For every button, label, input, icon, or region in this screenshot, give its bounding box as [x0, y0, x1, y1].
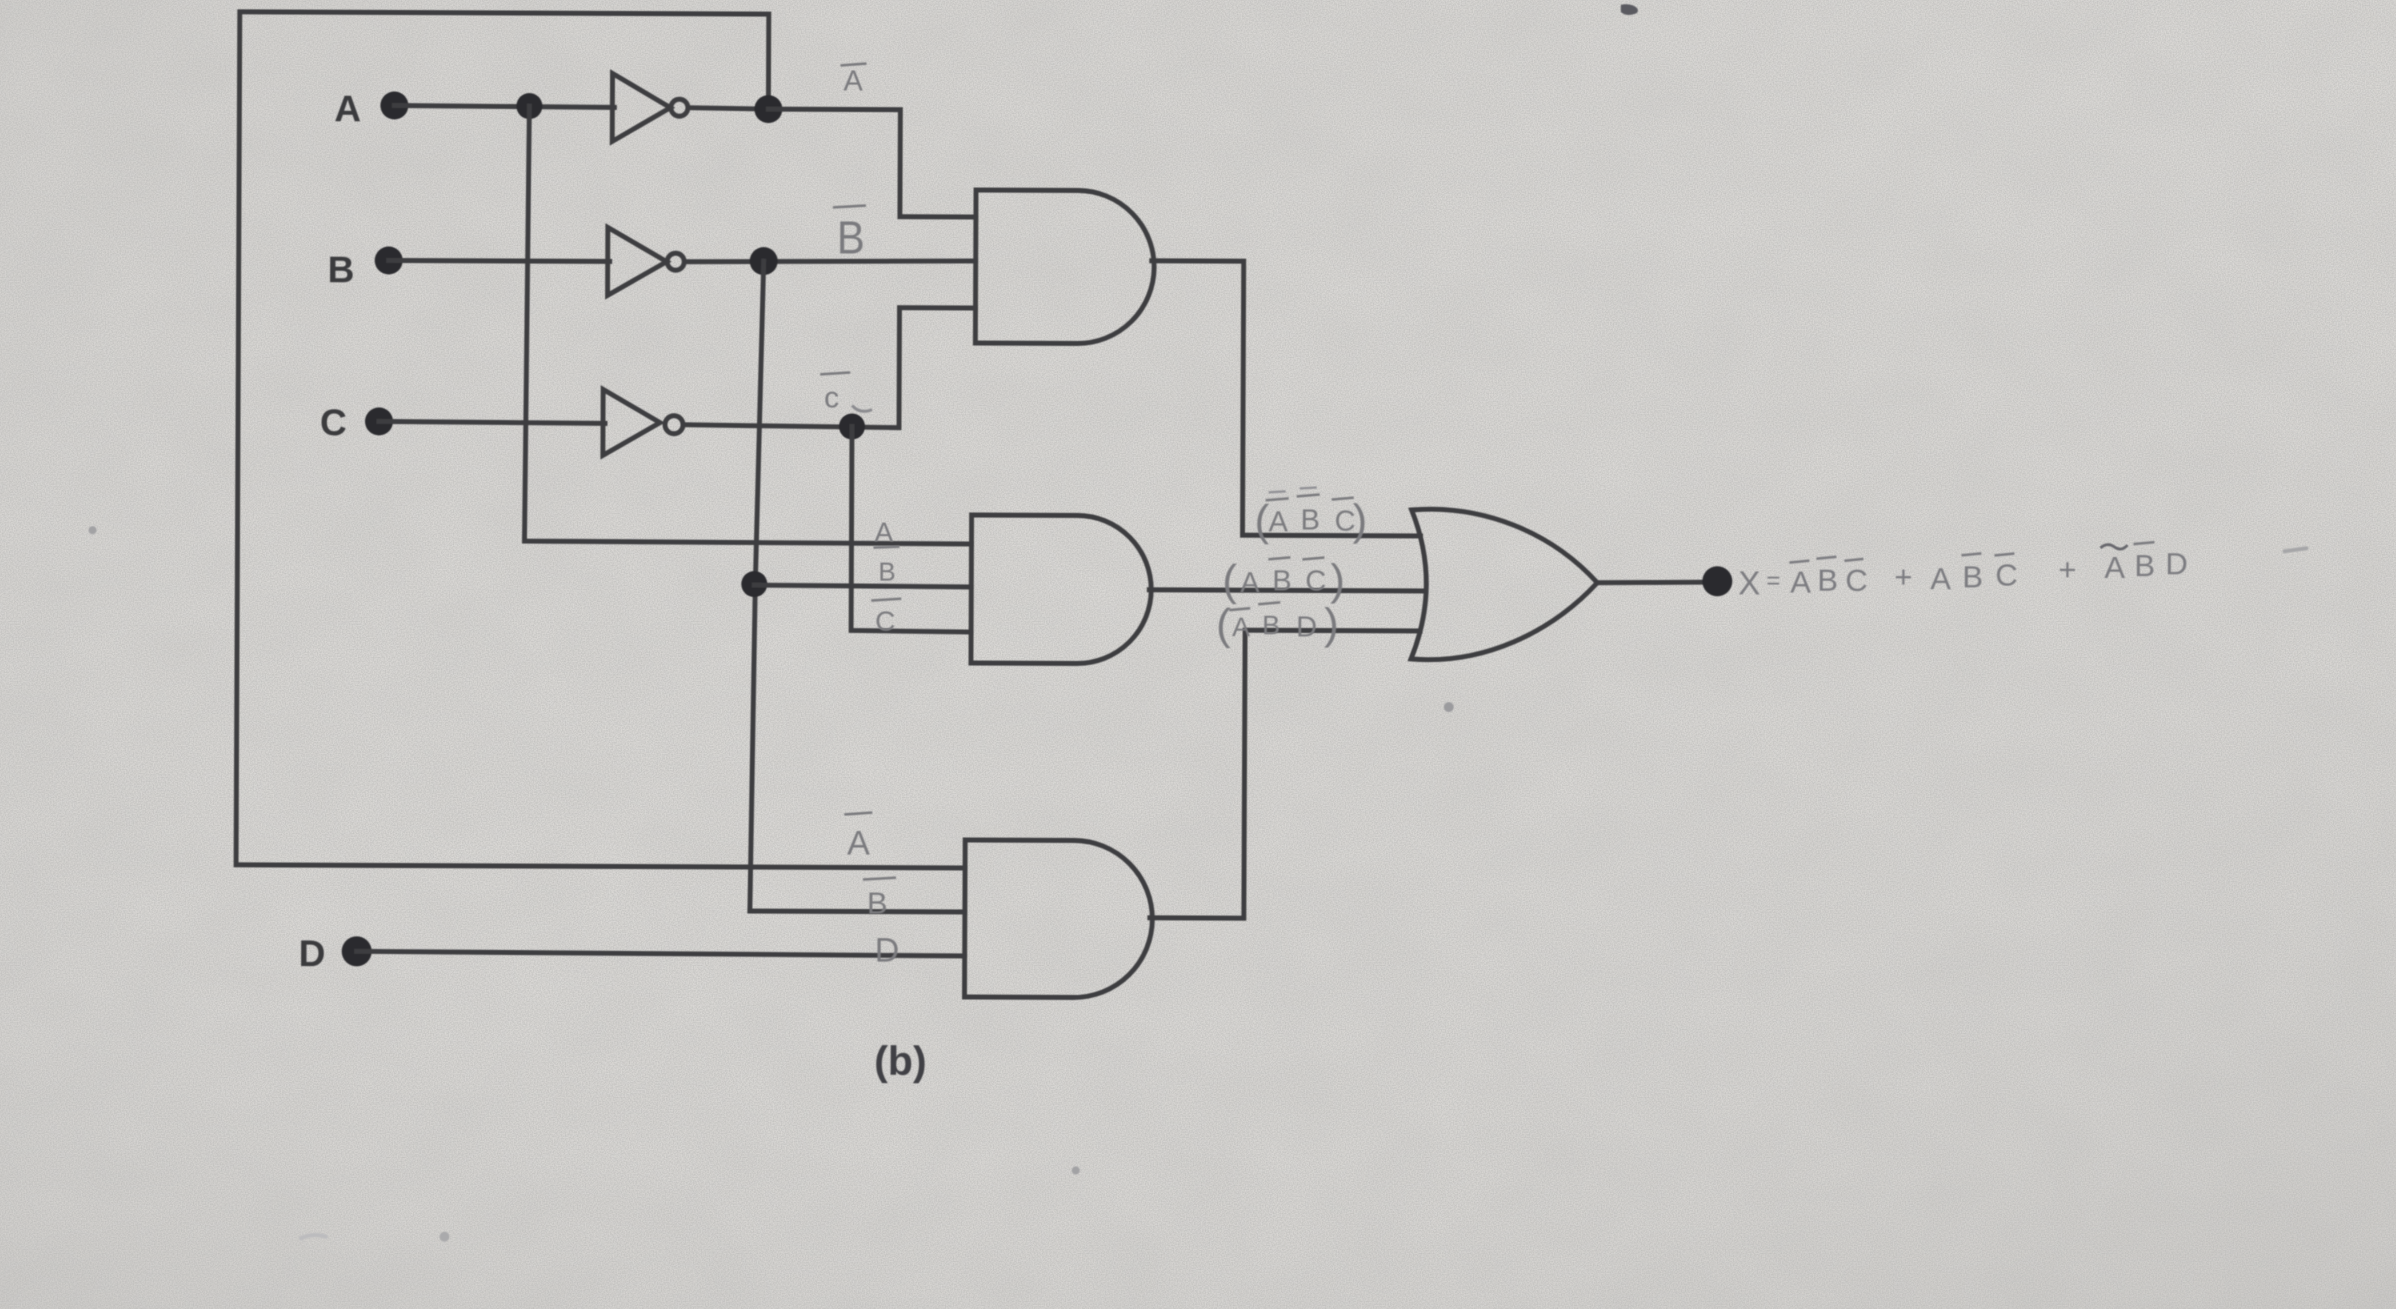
svg-text:B: B — [1962, 559, 1983, 594]
wire: Bbar to AND G3 middle input — [750, 909, 965, 915]
svg-text:(b): (b) — [874, 1038, 927, 1084]
svg-text:A: A — [2104, 550, 2125, 585]
svg-text:D: D — [299, 933, 326, 974]
svg-text:A: A — [1790, 565, 1811, 600]
wire: Bbar to AND G2 middle input — [754, 585, 971, 587]
junction: node Cbar — [839, 413, 865, 439]
svg-text:A: A — [1240, 567, 1260, 599]
wire: A vertical branch to AND G2 — [524, 106, 973, 544]
inverter U1 — [612, 73, 670, 141]
svg-text:=: = — [1766, 567, 1780, 594]
input terminal B — [375, 246, 403, 274]
wire: OR output to node X — [1597, 582, 1706, 583]
faint smudges — [89, 526, 97, 534]
svg-text:+: + — [1894, 559, 1912, 594]
svg-text:B: B — [867, 886, 888, 921]
wire: B input to inverter U2 — [389, 258, 610, 264]
svg-text:B: B — [328, 249, 355, 290]
svg-text:C: C — [875, 606, 895, 637]
stray ink mark top edge — [1621, 4, 1638, 15]
svg-text:B: B — [1272, 565, 1291, 597]
svg-text:D: D — [1296, 611, 1317, 643]
junction: A branch — [516, 93, 542, 119]
svg-text:c: c — [824, 381, 839, 414]
svg-text:A: A — [843, 65, 863, 97]
wire: U1 output Abar — [688, 108, 768, 109]
wire: D input to AND G3 — [357, 951, 965, 956]
input terminal A — [380, 91, 408, 119]
junction: node Abar — [754, 95, 782, 123]
svg-text:A: A — [1930, 561, 1951, 596]
output expression X = AbarBbarCbar + ABbarCbar + AbarBbarD — [1738, 540, 2188, 603]
svg-text:C: C — [320, 402, 347, 443]
OR gate G4 — [1411, 509, 1598, 660]
wire: U3 output Cbar — [683, 307, 976, 428]
svg-text:B: B — [1262, 610, 1280, 640]
svg-text:+: + — [2058, 552, 2076, 587]
AND gate G3 — [964, 840, 1152, 998]
inverter U3 — [603, 389, 660, 455]
AND gate G2 — [971, 515, 1152, 664]
wire: G1 output AbarBbarCbar to OR G4 — [1151, 261, 1422, 536]
svg-text:B: B — [2134, 548, 2155, 583]
svg-text:D: D — [875, 932, 900, 970]
input terminal C — [365, 407, 393, 435]
svg-text:): ) — [1352, 496, 1367, 545]
svg-text:C: C — [1845, 563, 1868, 598]
svg-text:(: ( — [1254, 496, 1269, 545]
wire: C input to inverter U3 — [379, 421, 605, 423]
svg-text:B: B — [837, 211, 865, 263]
svg-text:): ) — [1324, 600, 1339, 649]
svg-text:A: A — [334, 88, 361, 129]
svg-text:(: ( — [1222, 556, 1237, 605]
svg-text:B: B — [878, 557, 895, 587]
svg-text:C: C — [1995, 557, 2018, 592]
svg-text:X: X — [1738, 564, 1760, 601]
junction: node Bbar — [750, 247, 778, 275]
svg-text:): ) — [1330, 556, 1345, 605]
output terminal X — [1702, 566, 1732, 596]
wire: U2 output Bbar to AND G1 middle input — [685, 260, 976, 263]
svg-text:A: A — [874, 517, 893, 548]
svg-text:B: B — [1301, 504, 1320, 536]
svg-text:A: A — [1232, 612, 1250, 642]
inverter U2 — [608, 227, 667, 295]
input terminal D — [342, 936, 372, 966]
svg-text:D: D — [2165, 546, 2188, 581]
wire: G3 output AbarBbarD to OR G4 — [1150, 630, 1420, 919]
svg-text:B: B — [1817, 563, 1838, 598]
svg-text:A: A — [847, 824, 870, 862]
AND gate G1 — [975, 190, 1154, 344]
svg-text:C: C — [1305, 565, 1326, 597]
junction: Bbar branch to G2 — [741, 571, 767, 597]
wire: A input to inverter U1 — [394, 105, 614, 107]
wire: Cbar branch to AND G2 bottom input — [851, 426, 972, 632]
wire: feedback loop top border Abar — [236, 12, 969, 868]
wire: G2 output ABbarCbar to OR G4 — [1149, 590, 1424, 591]
svg-text:A: A — [1269, 506, 1289, 538]
svg-text:(: ( — [1216, 600, 1231, 649]
wire: Abar to AND G1 top input — [768, 109, 976, 217]
wire: Bbar vertical rail — [750, 261, 764, 911]
